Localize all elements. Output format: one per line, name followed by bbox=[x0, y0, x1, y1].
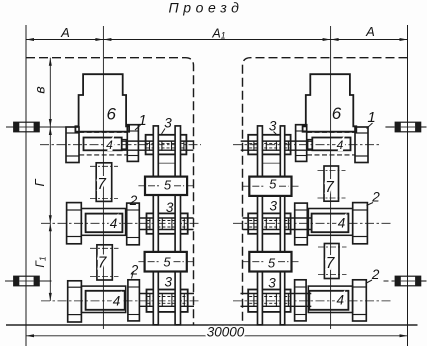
arrow G top bbox=[49, 127, 52, 135]
row3 centerline left bbox=[41, 300, 201, 302]
bearing flange left row1 bbox=[66, 127, 79, 163]
hatch 3 row3 left bbox=[147, 296, 186, 298]
hub lines 3 row3 right bbox=[253, 293, 255, 307]
left wall line bbox=[25, 25, 27, 346]
hub lines 3 row3 left bbox=[149, 293, 151, 307]
leader 2 row2 left bbox=[131, 202, 133, 205]
svg-text:7: 7 bbox=[326, 255, 336, 272]
shaft row2 right lower line bbox=[243, 229, 312, 231]
svg-text:30000: 30000 bbox=[207, 325, 245, 340]
dimension line G bbox=[49, 127, 51, 223]
motor shaft line right outer bbox=[420, 126, 427, 128]
hatch 3 row3 right bbox=[249, 296, 289, 298]
dashed boundary right half bbox=[243, 58, 408, 325]
arrow 30000 right bbox=[400, 334, 408, 337]
svg-text:3: 3 bbox=[164, 275, 172, 290]
hatch 3 row2 right bbox=[249, 220, 289, 222]
spindle 7 left upper tick lines bbox=[90, 165, 118, 167]
gear unit 5 left upper bbox=[145, 177, 187, 195]
motor 6 left bbox=[75, 74, 129, 132]
svg-text:Проезд: Проезд bbox=[168, 0, 243, 16]
spindle 7 right lower bbox=[324, 244, 339, 279]
flange cap lines right row3 bbox=[353, 286, 367, 288]
right machine centerline bbox=[330, 26, 332, 329]
vertical shaft left B bbox=[175, 126, 180, 325]
gearbox housing hidden outline row1 left bbox=[79, 131, 127, 133]
shaft line right lower bbox=[384, 280, 395, 282]
dashed boundary left half bbox=[26, 58, 194, 325]
svg-text:6: 6 bbox=[106, 105, 116, 124]
bevel unit 3 row2 left bbox=[147, 213, 188, 233]
leader 2 row3 right bbox=[366, 280, 373, 284]
shaft row1 right upper line bbox=[241, 140, 313, 142]
hub lines 3 row2 right bbox=[253, 218, 255, 231]
svg-text:3: 3 bbox=[166, 200, 174, 215]
bevel unit 3 row3 right bbox=[248, 290, 290, 312]
arrow v bottom bbox=[49, 119, 52, 127]
motor 6 right bbox=[303, 74, 357, 132]
svg-text:4: 4 bbox=[337, 138, 344, 152]
coupling 1 left cap lines bbox=[127, 130, 138, 132]
gearbox housing hidden outline row1 right bbox=[307, 131, 355, 133]
coupling 1 right cap lines bbox=[296, 130, 307, 132]
left machine centerline bbox=[102, 26, 104, 329]
shaft row1 right lower line bbox=[241, 149, 313, 151]
shaft row2 right upper line bbox=[243, 217, 312, 219]
flange cap lines left row2 bbox=[67, 209, 82, 211]
shaft row3 right lower line bbox=[241, 305, 312, 307]
arrow right-A left bbox=[331, 38, 339, 41]
bearing flange right row3 bbox=[353, 280, 367, 321]
bevel unit 3 row1 right bbox=[248, 135, 290, 155]
dimension line v bbox=[49, 58, 51, 127]
coupling 2 right row3 bbox=[295, 280, 307, 321]
shaft row3 left upper line bbox=[139, 293, 194, 295]
sleeve bottom edge between shafts left bbox=[158, 162, 175, 164]
row1 centerline left bbox=[40, 144, 201, 146]
coupling 2 left row3 bbox=[128, 280, 139, 321]
wall coupling left upper bbox=[14, 122, 40, 132]
shaft row3 left lower line bbox=[139, 305, 194, 307]
shaft row1 left lower line bbox=[122, 149, 194, 151]
svg-text:5: 5 bbox=[163, 255, 171, 270]
gearbox 4 row2 right bbox=[312, 214, 349, 233]
wall coupling right upper bbox=[395, 122, 421, 132]
leader 1 left bbox=[135, 125, 141, 130]
svg-text:2: 2 bbox=[129, 193, 138, 208]
svg-text:4: 4 bbox=[337, 293, 345, 308]
shaft row2 left lower line bbox=[139, 229, 193, 231]
flange cap lines left row3 bbox=[68, 286, 82, 288]
hub lines 3 row2 left bbox=[149, 218, 151, 231]
svg-text:4: 4 bbox=[110, 216, 118, 231]
coupling 2 left row2 bbox=[127, 203, 140, 245]
arrow G1 top bbox=[49, 223, 52, 231]
hatch 3 row2 left bbox=[147, 220, 186, 222]
wall coupling right lower bbox=[395, 276, 421, 286]
vertical shaft left A bbox=[153, 126, 158, 325]
arrow v top bbox=[49, 58, 52, 66]
arrow A1 left bbox=[103, 38, 111, 41]
flange cap lines left row1 bbox=[66, 132, 79, 134]
baseline bbox=[6, 324, 418, 326]
gearbox 4 row1 right bbox=[312, 138, 350, 151]
svg-text:7: 7 bbox=[97, 176, 107, 193]
gearbox 4 row1 left shaft extension bbox=[122, 140, 127, 150]
svg-text:7: 7 bbox=[98, 255, 108, 272]
arrow A1 right bbox=[323, 38, 331, 41]
gearbox 4 row3 right bbox=[309, 291, 348, 310]
shaft row3 right upper line bbox=[241, 293, 312, 295]
arrow G bottom bbox=[49, 215, 52, 223]
wall coupling left lower bbox=[14, 276, 40, 286]
coupling 2 right row3 cap lines bbox=[295, 286, 307, 288]
svg-text:A: A bbox=[365, 24, 375, 39]
bevel unit 3 row1 left bbox=[146, 135, 187, 155]
shaft row1 left upper line bbox=[122, 140, 194, 142]
hub lines 3 row1 right bbox=[253, 141, 255, 151]
svg-text:2: 2 bbox=[371, 267, 380, 282]
sleeve bottom edge between shafts right bbox=[262, 162, 280, 164]
gearbox housing row3 left bbox=[81, 286, 125, 312]
leader 3 row1 left bbox=[162, 129, 166, 135]
gearbox housing row3 right bbox=[308, 286, 352, 312]
svg-text:5: 5 bbox=[269, 177, 277, 192]
svg-text:7: 7 bbox=[325, 179, 335, 196]
bearing flange right row2 bbox=[353, 203, 368, 244]
row1 centerline right bbox=[233, 144, 380, 146]
row3 centerline right bbox=[233, 300, 393, 302]
motor shaft line left row1 bbox=[6, 126, 66, 128]
flange cap lines right row2 bbox=[353, 209, 368, 211]
svg-text:4: 4 bbox=[106, 138, 113, 152]
gear unit 5 right lower bbox=[249, 252, 291, 272]
dimension line A / A1 / A bbox=[26, 39, 408, 41]
svg-text:3: 3 bbox=[269, 199, 277, 214]
svg-text:6: 6 bbox=[332, 104, 342, 123]
bevel unit 3 row2 right bbox=[248, 213, 290, 233]
gearbox 4 row3 left bbox=[86, 291, 125, 310]
right wall line bbox=[407, 25, 409, 346]
hatch 3 row1 left bbox=[147, 143, 186, 145]
arrow G1 bottom bbox=[49, 293, 52, 301]
bearing flange right row1 bbox=[355, 127, 368, 163]
svg-text:в: в bbox=[32, 86, 48, 93]
svg-text:5: 5 bbox=[268, 256, 276, 271]
dimension line 30000 bbox=[26, 335, 408, 337]
flange cap lines right row1 bbox=[355, 132, 368, 134]
gearbox 4 row1 right shaft extension bbox=[308, 140, 313, 150]
coupling 2 right row2 bbox=[295, 203, 308, 245]
svg-text:Г: Г bbox=[32, 179, 47, 187]
svg-text:A: A bbox=[60, 25, 70, 40]
gearbox housing row2 left bbox=[81, 209, 125, 236]
svg-text:5: 5 bbox=[164, 177, 172, 192]
bevel unit 3 row3 left bbox=[147, 290, 188, 312]
spindle 7 right upper tick lines bbox=[318, 170, 346, 172]
shaft line left lower bbox=[5, 280, 52, 282]
coupling 2 left row3 cap lines bbox=[128, 286, 139, 288]
hatch 3 row1 right bbox=[249, 143, 289, 145]
bearing flange left row2 bbox=[67, 203, 82, 244]
arrow A left bbox=[26, 38, 34, 41]
svg-text:3: 3 bbox=[268, 276, 276, 291]
leader 1 right bbox=[367, 123, 373, 129]
spindle 7 left upper bbox=[96, 163, 112, 202]
gearbox 4 row2 left bbox=[86, 214, 123, 233]
arrow right-A right bbox=[400, 38, 408, 41]
coupling 2 left row2 cap lines bbox=[127, 209, 140, 211]
spindle 7 left lower bbox=[97, 245, 112, 280]
vertical shaft right B bbox=[280, 126, 284, 325]
leader 2 row2 right bbox=[367, 203, 374, 206]
coupling 1 right bbox=[296, 125, 307, 162]
vertical shaft right A bbox=[258, 126, 263, 325]
svg-text:4: 4 bbox=[338, 215, 346, 230]
row2 centerline right bbox=[233, 222, 393, 224]
gearbox housing row2 right bbox=[308, 209, 352, 236]
svg-text:3: 3 bbox=[164, 115, 172, 130]
motor shaft line right row1 bbox=[385, 126, 394, 128]
arrow A right at left motor CL bbox=[95, 38, 103, 41]
bearing flange left row3 bbox=[68, 281, 82, 322]
coupling 2 right row2 cap lines bbox=[295, 209, 308, 211]
gear unit 5 left lower bbox=[145, 252, 187, 272]
hub lines 3 row1 left bbox=[149, 141, 151, 151]
baseline over bars bbox=[6, 324, 418, 326]
leader 3 row1 right bbox=[274, 132, 278, 136]
shaft row2 left upper line bbox=[139, 217, 193, 219]
row2 centerline left bbox=[41, 222, 201, 224]
coupling 1 left bbox=[127, 125, 138, 162]
spindle 7 right lower tick lines bbox=[318, 246, 347, 248]
spindle 7 left lower tick lines bbox=[90, 247, 119, 249]
svg-text:3: 3 bbox=[269, 119, 277, 134]
gear unit 5 right upper bbox=[249, 177, 291, 196]
dimension line G1 bbox=[49, 223, 51, 301]
arrow 30000 left bbox=[26, 334, 34, 337]
svg-text:4: 4 bbox=[113, 294, 121, 309]
leader 2 row3 left bbox=[132, 271, 134, 279]
svg-text:2: 2 bbox=[130, 263, 139, 278]
shaft line right lower outer bbox=[420, 280, 427, 282]
spindle 7 right upper bbox=[324, 166, 339, 201]
gearbox 4 row1 left bbox=[84, 138, 122, 151]
